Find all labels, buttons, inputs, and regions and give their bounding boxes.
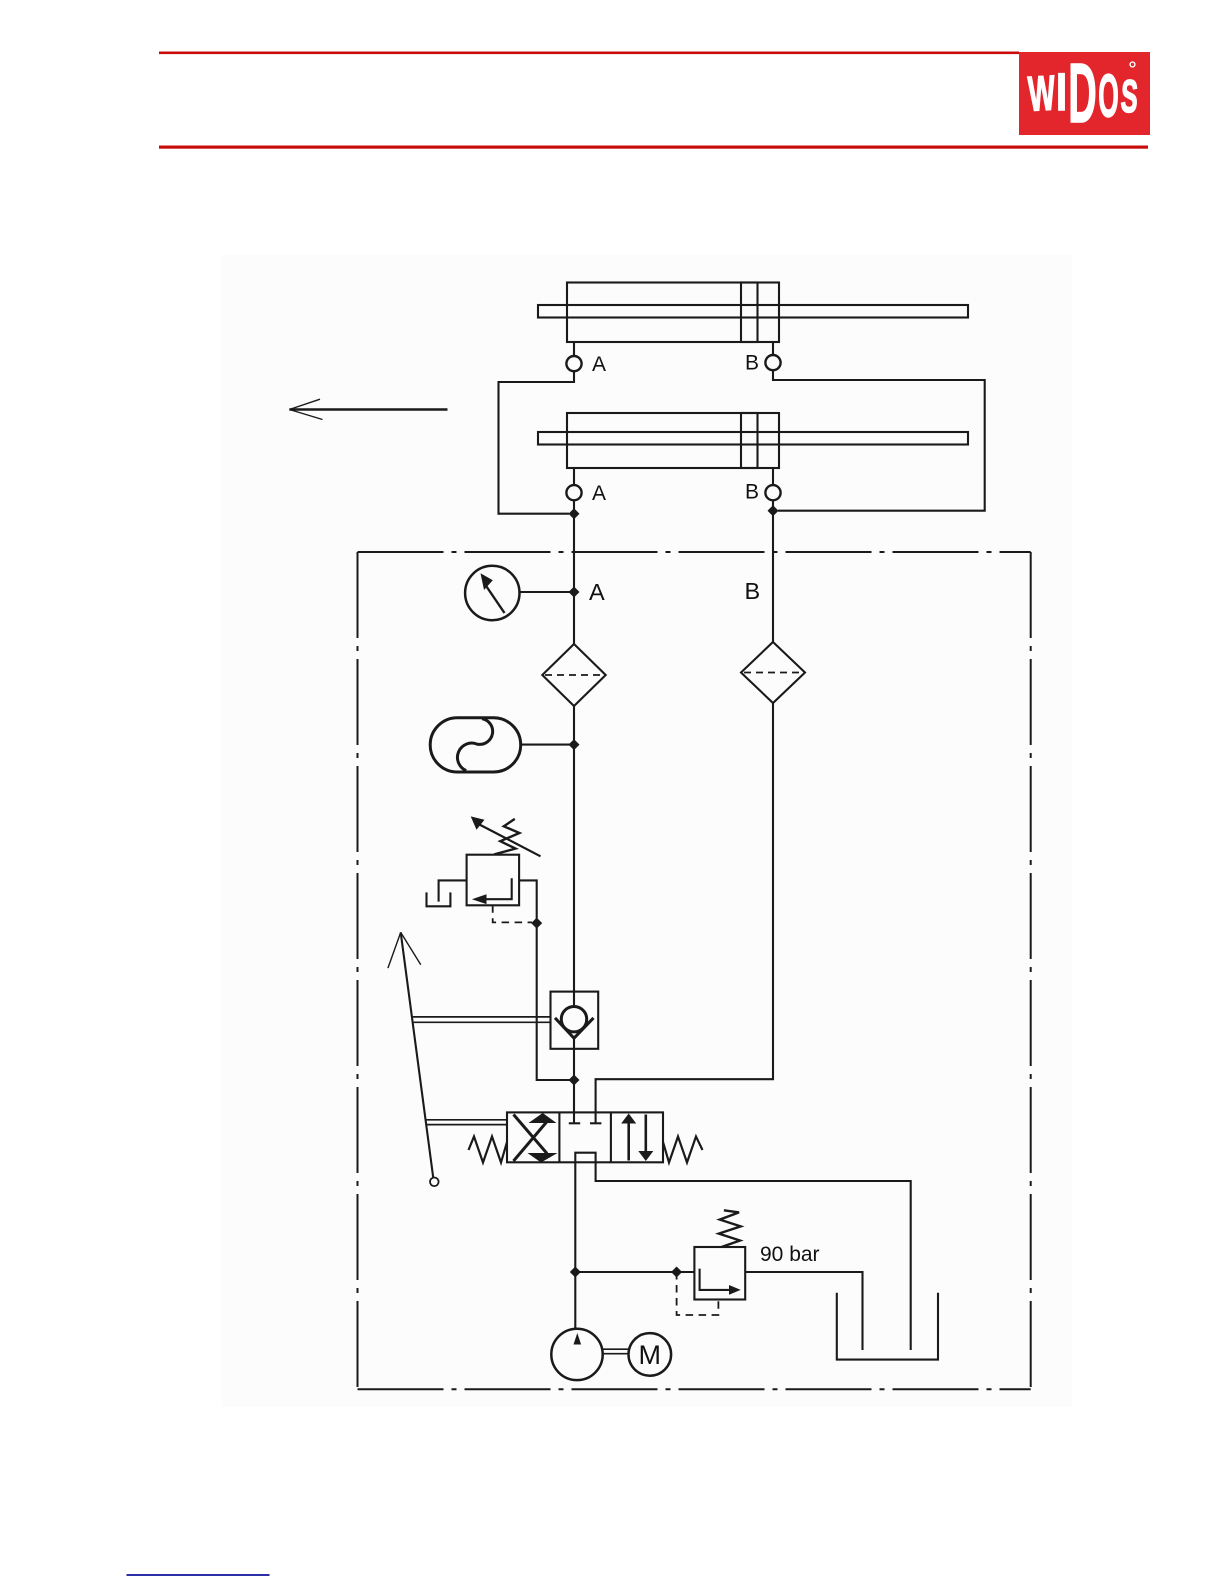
svg-text:A: A	[592, 482, 606, 505]
svg-text:A: A	[592, 353, 606, 376]
port B blocked T-bar	[590, 1122, 601, 1124]
cylinder 1 port B stub	[772, 342, 774, 355]
center envelope P-T path	[575, 1153, 595, 1163]
svg-text:O: O	[1098, 62, 1119, 129]
filter B diamond	[741, 642, 805, 703]
wire cooler to node A	[521, 744, 574, 746]
cylinder 2 body	[567, 413, 779, 468]
tank T2	[837, 1293, 938, 1360]
relief valve RV1 adjust arrow	[478, 824, 541, 857]
lever pivot circle	[430, 1178, 439, 1187]
svg-text:B: B	[745, 481, 759, 504]
RV2 internal arrow	[700, 1269, 733, 1290]
RV2 internal arrowhead	[729, 1285, 741, 1295]
wire cyl1 B to junction	[773, 370, 985, 511]
filled arrowheads & junction dots	[471, 505, 779, 1344]
cylinder 2 port B circle	[765, 485, 780, 500]
svg-text:A: A	[589, 579, 605, 605]
pilot line RV1 dashed	[493, 905, 532, 922]
gauge needle arrowhead	[481, 573, 493, 590]
pressure gauge	[465, 566, 519, 620]
svg-text:M: M	[639, 1340, 662, 1370]
wire P branch to relief valve RV2	[575, 1271, 694, 1273]
svg-text:90 bar: 90 bar	[760, 1243, 820, 1266]
power unit boundary	[358, 552, 1031, 1389]
junction node dots	[569, 508, 580, 519]
wire P line down to pump	[574, 1162, 576, 1329]
wire RV2 to tank T2	[745, 1272, 862, 1350]
check valve seat	[555, 1018, 594, 1038]
valve spring right	[663, 1137, 703, 1163]
relief valve RV1 body	[467, 855, 519, 906]
wire junction to valve port A	[573, 1080, 575, 1123]
wire RV1 to tank T1	[439, 880, 467, 901]
faint diagram backdrop	[222, 255, 1072, 1407]
right envelope arrows	[629, 1115, 646, 1161]
lever arrowhead	[388, 932, 421, 968]
wire A gauge junction to filter	[573, 592, 575, 644]
cylinder 2 rod	[538, 432, 968, 445]
port A blocked T-bar	[569, 1122, 580, 1124]
valve right envelope arrowheads	[621, 1114, 636, 1124]
RV1 adjust arrowhead	[471, 816, 485, 829]
RV2 pilot dashed	[677, 1272, 719, 1315]
cylinder 1 rod	[538, 305, 968, 318]
relief valve RV2 body	[694, 1247, 745, 1300]
lever arm	[401, 932, 434, 1177]
svg-text:D: D	[1068, 46, 1097, 139]
wire cyl1 A to junction	[499, 371, 575, 514]
wire node B to valve port B	[596, 703, 773, 1123]
pump triangle	[574, 1333, 582, 1345]
pump-motor shaft	[603, 1349, 629, 1354]
wire gauge to node A	[520, 591, 575, 593]
svg-text:B: B	[745, 352, 759, 375]
valve left envelope arrowheads	[529, 1113, 557, 1123]
wire node B down	[772, 500, 774, 642]
wire node A down	[573, 500, 575, 592]
svg-text:I: I	[1056, 62, 1067, 121]
wire RV1 right port down	[519, 880, 574, 1080]
RV1 internal arrowhead	[472, 894, 487, 904]
header rule bottom	[159, 146, 1148, 149]
flow direction arrow	[289, 408, 447, 410]
cylinder 2 port B stub	[772, 468, 774, 485]
relief valve RV1 spring	[494, 819, 519, 855]
svg-text:S: S	[1120, 69, 1140, 122]
wire A cooler junction down to check valve	[573, 745, 575, 1007]
svg-text:B: B	[745, 578, 761, 604]
WIDOS logo	[1019, 46, 1150, 139]
cylinder 2 port A circle	[566, 485, 581, 500]
tank T1	[427, 892, 451, 906]
svg-text:W: W	[1027, 67, 1057, 122]
cylinder 1 piston	[741, 283, 758, 343]
check valve CV1 body	[551, 992, 599, 1049]
cylinder 2 piston	[741, 413, 758, 468]
valve spring left	[469, 1137, 508, 1163]
blue footer underline	[127, 1574, 270, 1576]
cylinder 1 port B circle	[765, 355, 780, 370]
RV2 spring	[719, 1210, 741, 1247]
motor M1	[629, 1333, 672, 1376]
labels	[589, 352, 820, 1371]
header rule top	[159, 52, 1019, 55]
wire A filter to cooler junction	[573, 706, 575, 745]
left envelope crossed arrows	[514, 1115, 548, 1154]
check valve ball	[561, 1007, 586, 1032]
directional valve V1 body	[507, 1112, 663, 1162]
filter A diamond	[542, 644, 605, 706]
wire check valve to junction	[573, 1038, 575, 1080]
relief valve RV1 internal arrow	[486, 878, 512, 899]
wire T line to tank T2	[596, 1162, 911, 1350]
cylinder 1 body	[567, 283, 779, 343]
cylinder 2 port A stub	[573, 468, 575, 485]
pump P1	[551, 1329, 602, 1380]
cooler symbol	[430, 718, 521, 772]
mechanical link to check valve	[412, 1017, 550, 1022]
cylinder 1 port A circle	[566, 356, 581, 371]
mechanical link to valve	[426, 1120, 507, 1125]
cylinder 1 port A stub	[573, 342, 575, 356]
